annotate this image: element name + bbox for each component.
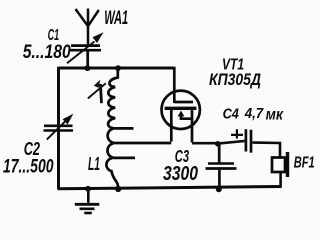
wire BF1 to bottom rail bbox=[279, 172, 282, 188]
svg-text:мк: мк bbox=[266, 107, 284, 124]
node junction L1 bottom bbox=[115, 186, 121, 192]
node junction C1/top rail bbox=[85, 65, 91, 71]
node output junction bbox=[215, 141, 221, 147]
wire output node to C4 bbox=[218, 141, 245, 144]
svg-text:3300: 3300 bbox=[163, 162, 198, 185]
antenna WA1 bbox=[76, 9, 99, 46]
node junction C3 bottom bbox=[216, 186, 222, 192]
wire drain to L1 tap bbox=[114, 142, 172, 145]
wire bottom rail bbox=[58, 187, 282, 189]
capacitor C1 (variable, 5...180) bbox=[67, 32, 104, 67]
node junction ground bbox=[85, 186, 91, 192]
svg-text:WA1: WA1 bbox=[104, 8, 128, 29]
svg-text:4,7: 4,7 bbox=[244, 106, 264, 122]
wire left rail bbox=[57, 67, 60, 189]
wire C4 to BF1 bbox=[252, 143, 280, 158]
wire source to output node bbox=[192, 142, 218, 145]
svg-text:BF1: BF1 bbox=[294, 155, 315, 172]
capacitor C3 (3300) bbox=[206, 144, 237, 190]
ground bbox=[75, 189, 100, 213]
transistor VT1 KP305D (MOSFET) bbox=[162, 91, 200, 143]
node junction L1 top bbox=[115, 65, 121, 71]
wire gate lead bbox=[173, 67, 176, 103]
svg-text:КП305Д: КП305Д bbox=[209, 71, 261, 89]
headphone BF1 bbox=[272, 152, 288, 177]
svg-text:C4: C4 bbox=[223, 107, 239, 123]
svg-text:L1: L1 bbox=[88, 153, 100, 174]
adjuster arrow on L1 bbox=[88, 80, 106, 103]
wire top rail bbox=[59, 67, 174, 70]
capacitor C4 (4.7uF electrolytic) bbox=[231, 129, 251, 153]
capacitor C2 (variable, 17...500) bbox=[44, 114, 74, 140]
inductor L1 (tapped coil) bbox=[106, 69, 135, 188]
svg-text:5...180: 5...180 bbox=[23, 42, 71, 63]
svg-text:17...500: 17...500 bbox=[3, 156, 54, 178]
